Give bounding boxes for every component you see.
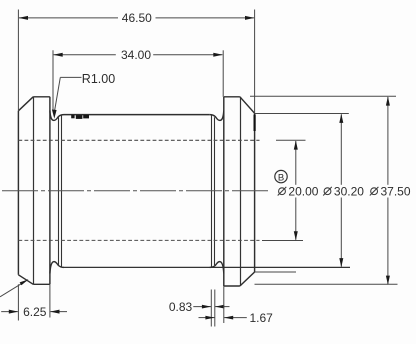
svg-text:1.67: 1.67 [250,311,274,325]
surface mark smudge on body top edge [71,115,89,119]
svg-text:30.20: 30.20 [334,185,364,199]
part outline: right flange bottom chamfer [240,272,255,286]
right face dark thick segment [254,115,256,132]
radius callout R1.00 arrowhead [52,110,57,119]
part outline: right flange chamfer edge line [240,97,242,286]
part outline: right flange top chamfer [240,97,255,114]
part outline: right groove top (R1 fillet) [210,111,224,121]
hidden line: bore bottom [18,239,259,241]
part outline: right groove tangent edge lines [212,115,215,267]
dimension 6.25 [1,284,67,320]
radius callout R1.00 leader [54,77,81,113]
svg-text:6.25: 6.25 [23,305,47,319]
dimension dia 37.50 [250,96,398,284]
diameter symbol for 37.50 [370,187,379,196]
chamfer leader at bottom left [0,280,28,297]
part outline: right face [254,113,256,272]
part outline: left flange right face [49,97,51,284]
dimension dia 30.20 [255,114,349,267]
part outline: right groove bottom (R1 fillet mirror) [210,262,224,274]
centerline [2,190,268,192]
dimension 0.83 [193,290,229,327]
extension stub from right bottom chamfer corner [255,271,296,273]
datum B symbol [275,170,287,182]
svg-text:R1.00: R1.00 [82,72,115,86]
dimension 46.50 [18,10,254,114]
part outline: right flange top [224,96,240,98]
svg-text:37.50: 37.50 [381,185,411,199]
part outline: body bottom edge continuing as diameter 30.20 extension line [64,266,350,268]
svg-text:20.00: 20.00 [288,185,318,199]
svg-text:34.00: 34.00 [121,48,151,62]
part outline: left groove bottom (R1 fillet mirror) [50,262,64,274]
dimension 34.00 [53,50,223,110]
part outline: left flange bottom chamfer [18,275,33,285]
dimension 1.67 [199,286,247,323]
diameter symbol for 30.20 [323,187,332,196]
part outline: body top edge [64,114,210,116]
part outline: right flange bottom [224,285,240,287]
part outline: left groove top (R1 fillet) [50,111,64,121]
svg-text:46.50: 46.50 [122,11,152,25]
svg-text:B: B [278,173,284,184]
part outline: left flange bottom [33,283,50,285]
part outline: left flange chamfer edge line [33,97,35,284]
svg-text:0.83: 0.83 [169,300,193,314]
part outline: left flange top [33,96,50,98]
part outline: left flange left face [17,111,19,275]
part outline: left groove tangent edge lines [59,115,62,267]
dimension dia 20.00 [262,140,306,240]
part outline: left flange top chamfer [18,97,33,111]
chamfer leader arrowhead [20,279,29,285]
diameter symbol for 20.00 [278,187,287,196]
hidden line: bore top [18,139,259,141]
part outline: right flange left face [223,97,225,286]
